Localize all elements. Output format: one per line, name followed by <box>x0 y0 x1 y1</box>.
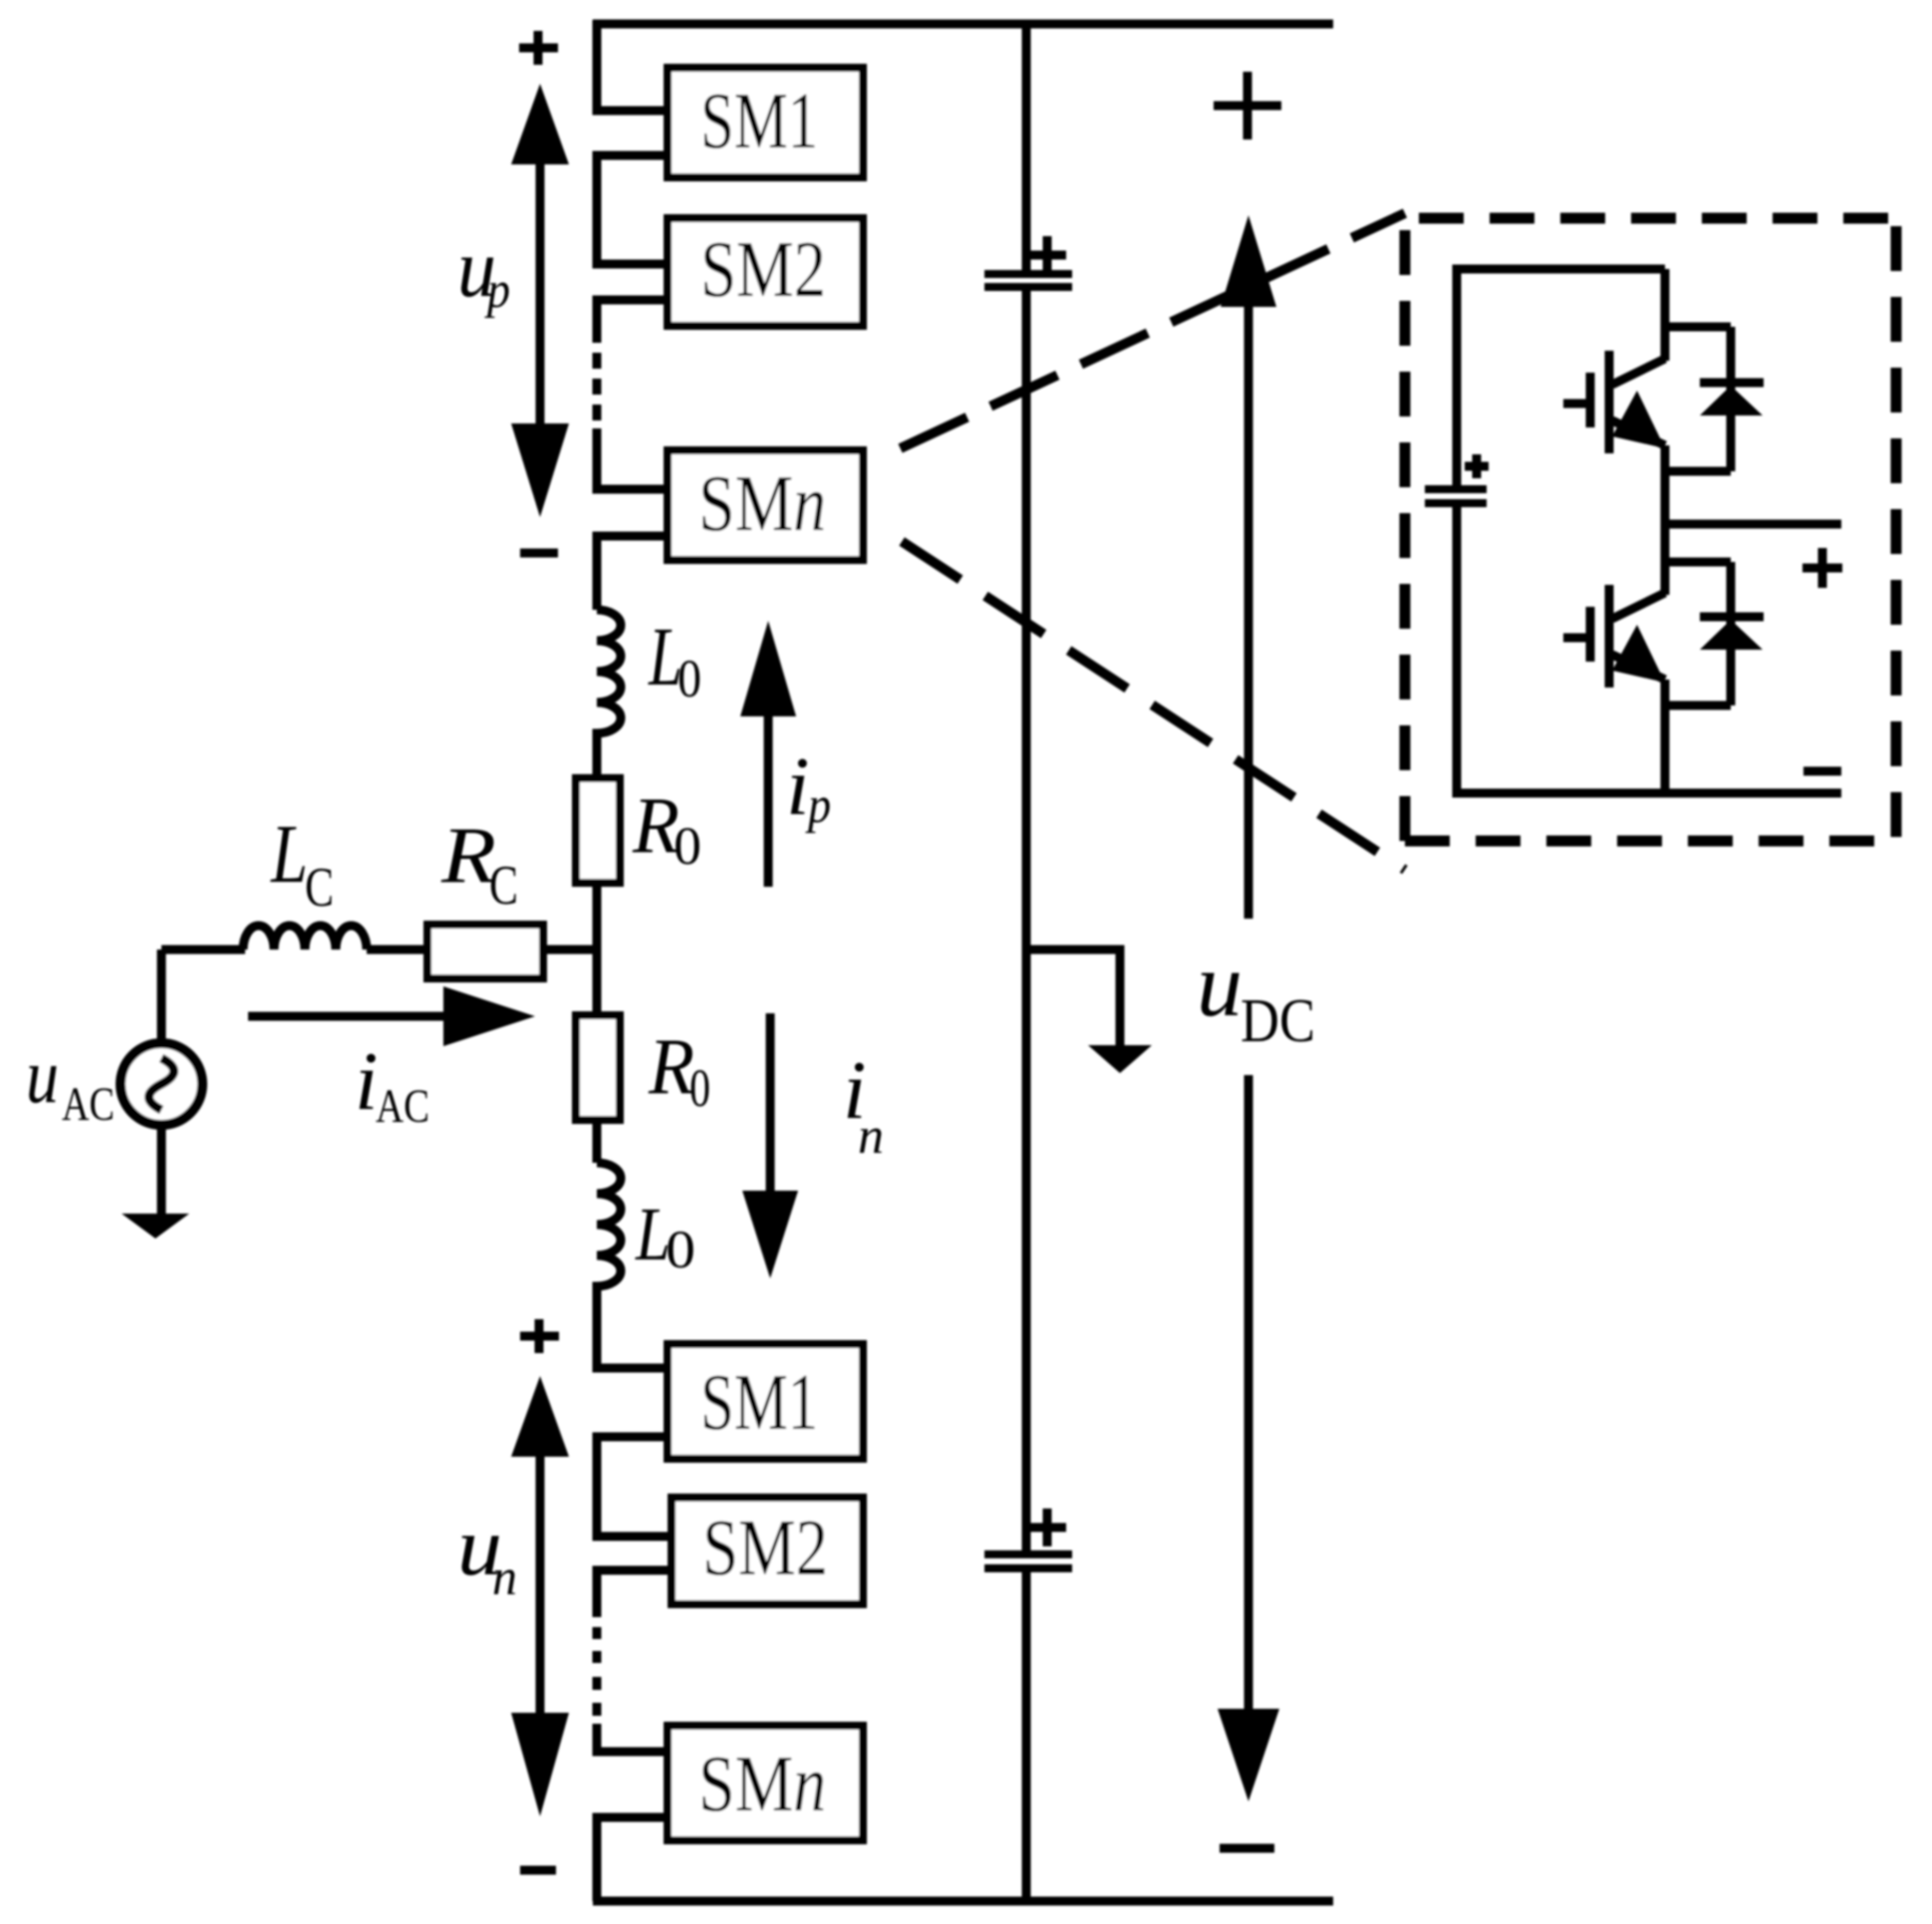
svg-text:p: p <box>804 777 831 834</box>
svg-text:u: u <box>26 1032 59 1119</box>
svg-text:C: C <box>489 855 518 917</box>
svg-text:n: n <box>858 1108 884 1165</box>
svg-text:i: i <box>786 740 809 833</box>
svg-text:R: R <box>440 812 496 900</box>
svg-text:C: C <box>305 857 334 919</box>
svg-text:i: i <box>355 1035 378 1128</box>
svg-text:SMn: SMn <box>698 1741 826 1828</box>
svg-text:SM2: SM2 <box>700 226 826 314</box>
svg-text:DC: DC <box>1241 987 1315 1055</box>
svg-text:n: n <box>492 1549 517 1606</box>
svg-text:R: R <box>632 782 680 870</box>
svg-text:0: 0 <box>666 1220 695 1279</box>
svg-text:AC: AC <box>62 1078 115 1131</box>
svg-text:SMn: SMn <box>698 460 826 548</box>
svg-text:SM1: SM1 <box>700 1359 818 1447</box>
svg-text:SM2: SM2 <box>702 1505 828 1592</box>
svg-text:AC: AC <box>376 1080 429 1133</box>
svg-text:u: u <box>1197 934 1242 1035</box>
svg-text:0: 0 <box>674 816 701 876</box>
svg-text:0: 0 <box>690 1058 710 1118</box>
svg-text:SM1: SM1 <box>700 78 818 165</box>
svg-text:R: R <box>648 1023 694 1111</box>
svg-text:0: 0 <box>678 649 701 708</box>
svg-text:L: L <box>270 808 308 901</box>
svg-text:p: p <box>483 262 510 319</box>
